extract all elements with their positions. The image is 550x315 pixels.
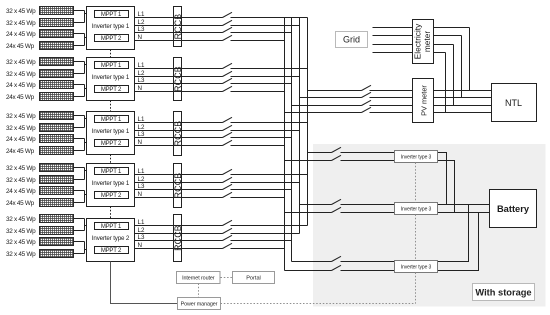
MPPT 1 box of U5 [95, 223, 129, 230]
bus L1 vertical [307, 18, 309, 226]
svg-text:L2: L2 [138, 124, 145, 131]
wire drop L2 to NTL feed [461, 36, 463, 98]
inverter U3 (Inverter type 1) [87, 112, 135, 155]
svg-text:RCCB: RCCB [173, 66, 183, 92]
wire to PV meter L3 [370, 105, 413, 107]
wire L2 of U2 to bus [231, 76, 300, 78]
wire: strings 3-4 to MPPT bracket [74, 85, 95, 97]
svg-text:MPPT 1: MPPT 1 [101, 224, 122, 230]
wire L3 of U2 to breaker [135, 83, 223, 85]
wire bus to battery inverter W3 phase [292, 261, 332, 263]
wire PV meter to NTL L3 [434, 105, 492, 107]
circuit breaker on L1 of U5 [223, 220, 233, 225]
wire L2 of U5 to bus [231, 233, 300, 235]
svg-text:L3: L3 [138, 77, 145, 84]
inverter U1 (Inverter type 1) [87, 7, 135, 50]
wire drop N to NTL feed [445, 53, 447, 113]
dotted link U2-U3 [110, 101, 112, 112]
wire N of U3 to breaker [135, 145, 223, 147]
svg-text:24x 45 Wp: 24x 45 Wp [6, 43, 35, 50]
PV array string S3.3 (24 x 45 Wp) [40, 135, 74, 143]
circuit breaker on L3 of U4 [223, 184, 233, 189]
svg-text:32 x 45 Wp: 32 x 45 Wp [6, 20, 36, 27]
wire electricity meter out N [434, 52, 446, 54]
svg-text:N: N [138, 85, 142, 92]
svg-text:32 x 45 Wp: 32 x 45 Wp [6, 177, 36, 184]
bus L3 vertical [291, 18, 293, 262]
PV array string S5.4 (32 x 45 Wp) [40, 250, 74, 258]
wire L3 of U1 to breaker [135, 32, 223, 34]
circuit breaker on L3 of U2 [223, 78, 233, 83]
svg-text:N: N [138, 34, 142, 41]
svg-text:NTL: NTL [505, 98, 522, 108]
wire to inverter type 3 #1 phase [341, 152, 395, 154]
Grid box [336, 32, 368, 48]
wire L2 of U1 to breaker [135, 25, 223, 27]
svg-text:L1: L1 [138, 168, 145, 175]
PV array string S3.4 (24x 45 Wp) [40, 147, 74, 155]
dotted link U1-U2 [110, 50, 112, 58]
svg-text:meter: meter [422, 31, 432, 52]
svg-text:Internet router: Internet router [182, 275, 215, 281]
wire L2 of U3 to bus [231, 130, 300, 132]
svg-text:32 x 45 Wp: 32 x 45 Wp [6, 251, 36, 258]
svg-text:Inverter type 3: Inverter type 3 [401, 155, 432, 161]
PV array string S3.1 (32 x 45 Wp) [40, 112, 74, 120]
PV array string S5.1 (32 x 45 Wp) [40, 215, 74, 223]
wire PV meter to NTL L2 [434, 97, 492, 99]
inverter U2 (Inverter type 1) [87, 58, 135, 101]
circuit breaker on L3 of U1 [223, 27, 233, 32]
svg-text:32 x 45 Wp: 32 x 45 Wp [6, 125, 36, 132]
wire: strings 3-4 to MPPT bracket [74, 34, 95, 46]
RCCB F1 [174, 7, 182, 47]
PV array string S1.4 (24x 45 Wp) [40, 42, 74, 50]
circuit breaker on N of U2 [223, 86, 233, 91]
wire to inverter type 3 #3 neutral [341, 270, 395, 272]
circuit breaker on L2 of U2 [223, 71, 233, 76]
svg-text:L1: L1 [138, 219, 145, 226]
svg-text:MPPT 1: MPPT 1 [101, 169, 122, 175]
circuit breaker on L3 of U5 [223, 235, 233, 240]
dotted link power manager to storage [221, 303, 416, 305]
wire inverter type 3 #3 DC+ to battery bus [438, 205, 469, 262]
RCCB F4 [174, 164, 182, 208]
dotted link W1-W2 [415, 163, 417, 203]
wire drop L1 to NTL feed [469, 28, 471, 91]
svg-text:RCCB: RCCB [173, 121, 183, 147]
circuit breaker on L1 of U3 [223, 117, 233, 122]
MPPT 1 box of U2 [95, 62, 129, 69]
svg-text:N: N [138, 242, 142, 249]
MPPT 2 box of U5 [95, 247, 129, 254]
inverter type 3 #1 (W1) [395, 151, 438, 163]
bus L2 vertical [299, 18, 301, 234]
MPPT 2 box of U2 [95, 86, 129, 93]
wire L2 of U4 to breaker [135, 182, 223, 184]
circuit breaker on N of U4 [223, 192, 233, 197]
dotted link router-power manager [198, 284, 200, 298]
svg-text:PV meter: PV meter [419, 85, 428, 116]
wire to inverter type 3 #2 phase [341, 204, 395, 206]
wire Grid to electricity meter L1 [373, 27, 413, 29]
circuit breaker on PV-meter feed N [362, 107, 372, 112]
wire Grid to electricity meter L2 [373, 35, 413, 37]
wire L1 of U2 to bus [231, 68, 308, 70]
wire bus to battery inverter W1 phase [308, 152, 332, 154]
wire bus to battery inverter W3 neutral [285, 270, 332, 272]
circuit breaker on PV-meter feed L1 [362, 85, 372, 90]
svg-text:Inverter type 1: Inverter type 1 [92, 180, 130, 187]
svg-text:MPPT 1: MPPT 1 [101, 117, 122, 123]
wire L1 of U3 to breaker [135, 122, 223, 124]
wire bus L3 to PV-meter breaker [292, 105, 362, 107]
MPPT 2 box of U1 [95, 35, 129, 42]
MPPT 1 box of U4 [95, 168, 129, 175]
wire bus L2 to PV-meter breaker [300, 97, 362, 99]
PV array string S2.3 (24 x 45 Wp) [40, 81, 74, 89]
circuit breaker battery feed W2 phase [332, 199, 342, 204]
wire inverter type 3 #1 DC- to battery bus [438, 161, 455, 213]
dotted link router-portal [221, 277, 233, 279]
electricity meter M1 [413, 20, 434, 64]
wire L1 of U5 to bus [231, 225, 308, 227]
svg-text:RCCB: RCCB [173, 225, 183, 251]
svg-text:24x 45 Wp: 24x 45 Wp [6, 148, 35, 155]
bus N vertical [284, 18, 286, 271]
wire inverter type 3 #3 DC- to battery bus [438, 213, 479, 271]
circuit breaker on PV-meter feed L2 [362, 92, 372, 97]
circuit breaker on L2 of U5 [223, 228, 233, 233]
circuit breaker on L2 of U4 [223, 177, 233, 182]
wire L1 of U4 to bus [231, 174, 308, 176]
PV array string S3.2 (32 x 45 Wp) [40, 124, 74, 132]
power manager box [178, 298, 221, 310]
wire N of U1 to breaker [135, 40, 223, 42]
svg-text:L3: L3 [138, 234, 145, 241]
circuit breaker on N of U5 [223, 243, 233, 248]
wire to PV meter N [370, 112, 413, 114]
wire L2 of U4 to bus [231, 182, 300, 184]
svg-text:With storage: With storage [475, 288, 531, 298]
circuit breaker battery feed W3 phase [332, 256, 342, 261]
svg-text:32 x 45 Wp: 32 x 45 Wp [6, 59, 36, 66]
wire bus to battery inverter W2 neutral [285, 212, 332, 214]
svg-text:MPPT 2: MPPT 2 [101, 248, 122, 254]
wire L2 of U2 to breaker [135, 76, 223, 78]
wire L3 of U3 to breaker [135, 137, 223, 139]
svg-text:RCCB: RCCB [173, 173, 183, 199]
svg-text:32 x 45 Wp: 32 x 45 Wp [6, 8, 36, 15]
PV array string S4.2 (32 x 45 Wp) [40, 176, 74, 184]
svg-text:L1: L1 [138, 116, 145, 123]
wire L1 of U5 to breaker [135, 225, 223, 227]
inverter type 3 #2 (W2) [395, 203, 438, 215]
circuit breaker on N of U1 [223, 35, 233, 40]
circuit breaker battery feed W1 phase [332, 147, 342, 152]
circuit breaker on L2 of U1 [223, 20, 233, 25]
svg-text:24x 45 Wp: 24x 45 Wp [6, 200, 35, 207]
battery B1 [490, 190, 537, 228]
wire L3 of U3 to bus [231, 137, 292, 139]
svg-text:Grid: Grid [343, 35, 360, 45]
wire: strings 1-2 to MPPT bracket [74, 62, 95, 74]
wire N of U4 to bus [231, 197, 285, 199]
svg-text:MPPT 2: MPPT 2 [101, 36, 122, 42]
PV array string S5.3 (32 x 45 Wp) [40, 238, 74, 246]
wire PV meter to NTL N [434, 112, 492, 114]
wire L3 of U2 to bus [231, 83, 292, 85]
svg-text:Inverter type 3: Inverter type 3 [401, 265, 432, 271]
wire electricity meter out L2 [434, 35, 462, 37]
wire L2 of U5 to breaker [135, 233, 223, 235]
portal box [233, 272, 275, 284]
svg-text:Portal: Portal [246, 275, 261, 281]
NTL box [492, 84, 537, 122]
svg-text:Power manager: Power manager [181, 302, 218, 308]
wire L3 of U5 to bus [231, 240, 292, 242]
circuit breaker on L1 of U4 [223, 169, 233, 174]
svg-text:MPPT 2: MPPT 2 [101, 141, 122, 147]
wire L3 of U4 to bus [231, 189, 292, 191]
svg-text:Inverter type 1: Inverter type 1 [92, 74, 130, 81]
circuit breaker on L2 of U3 [223, 125, 233, 130]
svg-text:32 x 45 Wp: 32 x 45 Wp [6, 165, 36, 172]
circuit breaker battery feed W1 neutral [332, 155, 342, 160]
wire inverter U5 to power manager [111, 262, 178, 304]
RCCB F5 [174, 215, 182, 262]
svg-text:L3: L3 [138, 183, 145, 190]
svg-text:Inverter type 1: Inverter type 1 [92, 23, 130, 30]
wire to inverter type 3 #3 phase [341, 261, 395, 263]
svg-text:24 x 45 Wp: 24 x 45 Wp [6, 82, 36, 89]
wire: strings 3-4 to MPPT bracket [74, 242, 95, 254]
dotted link W3 to power manager line [415, 273, 417, 304]
MPPT 1 box of U3 [95, 116, 129, 123]
wire drop L3 to NTL feed [453, 45, 455, 106]
svg-text:L3: L3 [138, 131, 145, 138]
inverter U5 (Inverter type 2) [87, 219, 135, 262]
svg-text:Inverter type 1: Inverter type 1 [92, 128, 130, 135]
svg-text:24 x 45 Wp: 24 x 45 Wp [6, 188, 36, 195]
svg-text:MPPT 2: MPPT 2 [101, 193, 122, 199]
svg-text:L2: L2 [138, 176, 145, 183]
wire: strings 3-4 to MPPT bracket [74, 139, 95, 151]
wire: strings 1-2 to MPPT bracket [74, 168, 95, 180]
circuit breaker on N of U3 [223, 140, 233, 145]
wire electricity meter out L3 [434, 44, 454, 46]
wire L1 of U1 to bus [231, 17, 308, 19]
MPPT 2 box of U4 [95, 192, 129, 199]
svg-text:L3: L3 [138, 26, 145, 33]
PV array string S1.1 (32 x 45 Wp) [40, 7, 74, 15]
wire L1 of U1 to breaker [135, 17, 223, 19]
with-storage shaded region [313, 144, 546, 307]
wire: strings 1-2 to MPPT bracket [74, 116, 95, 128]
svg-text:L1: L1 [138, 62, 145, 69]
wire battery DC+ bus [438, 204, 490, 206]
svg-text:32 x 45 Wp: 32 x 45 Wp [6, 216, 36, 223]
inverter U4 (Inverter type 1) [87, 164, 135, 207]
wire L1 of U2 to breaker [135, 68, 223, 70]
circuit breaker battery feed W3 neutral [332, 265, 342, 270]
svg-text:24 x 45 Wp: 24 x 45 Wp [6, 136, 36, 143]
wire bus L1 to PV-meter breaker [308, 90, 362, 92]
PV array string S4.4 (24x 45 Wp) [40, 199, 74, 207]
wire: strings 1-2 to MPPT bracket [74, 219, 95, 231]
MPPT 2 box of U3 [95, 140, 129, 147]
svg-text:N: N [138, 191, 142, 198]
internet router box [177, 272, 221, 284]
svg-text:Inverter type 3: Inverter type 3 [401, 207, 432, 213]
wire bus to battery inverter W2 phase [300, 204, 332, 206]
wire L3 of U1 to bus [231, 32, 292, 34]
wire L1 of U4 to breaker [135, 174, 223, 176]
svg-text:24 x 45 Wp: 24 x 45 Wp [6, 31, 36, 38]
wire inverter type 3 #1 DC+ to battery bus [438, 153, 447, 205]
wire L2 of U3 to breaker [135, 130, 223, 132]
wire L3 of U4 to breaker [135, 189, 223, 191]
wire to inverter type 3 #1 neutral [341, 160, 395, 162]
dotted link U3-U4 [110, 155, 112, 164]
svg-text:32 x 45 Wp: 32 x 45 Wp [6, 228, 36, 235]
svg-text:Inverter type 2: Inverter type 2 [92, 235, 130, 242]
circuit breaker battery feed W2 neutral [332, 207, 342, 212]
MPPT 1 box of U1 [95, 11, 129, 18]
svg-text:L2: L2 [138, 19, 145, 26]
circuit breaker on L3 of U3 [223, 132, 233, 137]
wire L2 of U1 to bus [231, 25, 300, 27]
dotted link U4-U5 [110, 207, 112, 219]
PV array string S4.1 (32 x 45 Wp) [40, 164, 74, 172]
wire electricity meter out L1 [434, 27, 470, 29]
wire to PV meter L2 [370, 97, 413, 99]
PV array string S1.3 (24 x 45 Wp) [40, 30, 74, 38]
wire N of U2 to breaker [135, 91, 223, 93]
wire N of U5 to breaker [135, 248, 223, 250]
wire bus N to PV-meter breaker [285, 112, 362, 114]
wire Grid to electricity meter N [373, 52, 413, 54]
PV array string S2.4 (24x 45 Wp) [40, 93, 74, 101]
With storage caption box [473, 284, 535, 301]
PV array string S2.2 (32 x 45 Wp) [40, 70, 74, 78]
wire N of U1 to bus [231, 40, 285, 42]
PV array string S1.2 (32 x 45 Wp) [40, 19, 74, 27]
svg-text:Battery: Battery [497, 204, 530, 214]
wire L3 of U5 to breaker [135, 240, 223, 242]
wire: strings 3-4 to MPPT bracket [74, 191, 95, 203]
svg-text:L1: L1 [138, 11, 145, 18]
wire to inverter type 3 #2 neutral [341, 212, 395, 214]
wire bus to battery inverter W1 neutral [285, 160, 332, 162]
svg-text:32 x 45 Wp: 32 x 45 Wp [6, 71, 36, 78]
PV array string S5.2 (32 x 45 Wp) [40, 227, 74, 235]
RCCB F3 [174, 112, 182, 156]
wire battery DC- bus [438, 212, 490, 214]
svg-text:N: N [138, 139, 142, 146]
svg-text:L2: L2 [138, 70, 145, 77]
svg-text:24x 45 Wp: 24x 45 Wp [6, 94, 35, 101]
svg-text:RCCB: RCCB [173, 14, 183, 40]
circuit breaker on L1 of U1 [223, 12, 233, 17]
wire PV meter to NTL L1 [434, 90, 492, 92]
wire N of U3 to bus [231, 145, 285, 147]
circuit breaker on L1 of U2 [223, 63, 233, 68]
PV array string S4.3 (24 x 45 Wp) [40, 187, 74, 195]
PV meter M2 [413, 79, 434, 123]
wire Grid to electricity meter L3 [373, 44, 413, 46]
wire N of U2 to bus [231, 91, 285, 93]
RCCB F2 [174, 58, 182, 101]
svg-text:L2: L2 [138, 227, 145, 234]
circuit breaker on PV-meter feed L3 [362, 100, 372, 105]
inverter type 3 #3 (W3) [395, 261, 438, 273]
wire: strings 1-2 to MPPT bracket [74, 11, 95, 23]
wire N of U5 to bus [231, 248, 285, 250]
svg-text:32 x 45 Wp: 32 x 45 Wp [6, 113, 36, 120]
dotted link W2-W3 [415, 215, 417, 261]
svg-text:MPPT 2: MPPT 2 [101, 87, 122, 93]
wire to PV meter L1 [370, 90, 413, 92]
PV array string S2.1 (32 x 45 Wp) [40, 58, 74, 66]
svg-text:32 x 45 Wp: 32 x 45 Wp [6, 239, 36, 246]
wire N of U4 to breaker [135, 197, 223, 199]
wire L1 of U3 to bus [231, 122, 308, 124]
svg-text:MPPT 1: MPPT 1 [101, 12, 122, 18]
svg-text:MPPT 1: MPPT 1 [101, 63, 122, 69]
